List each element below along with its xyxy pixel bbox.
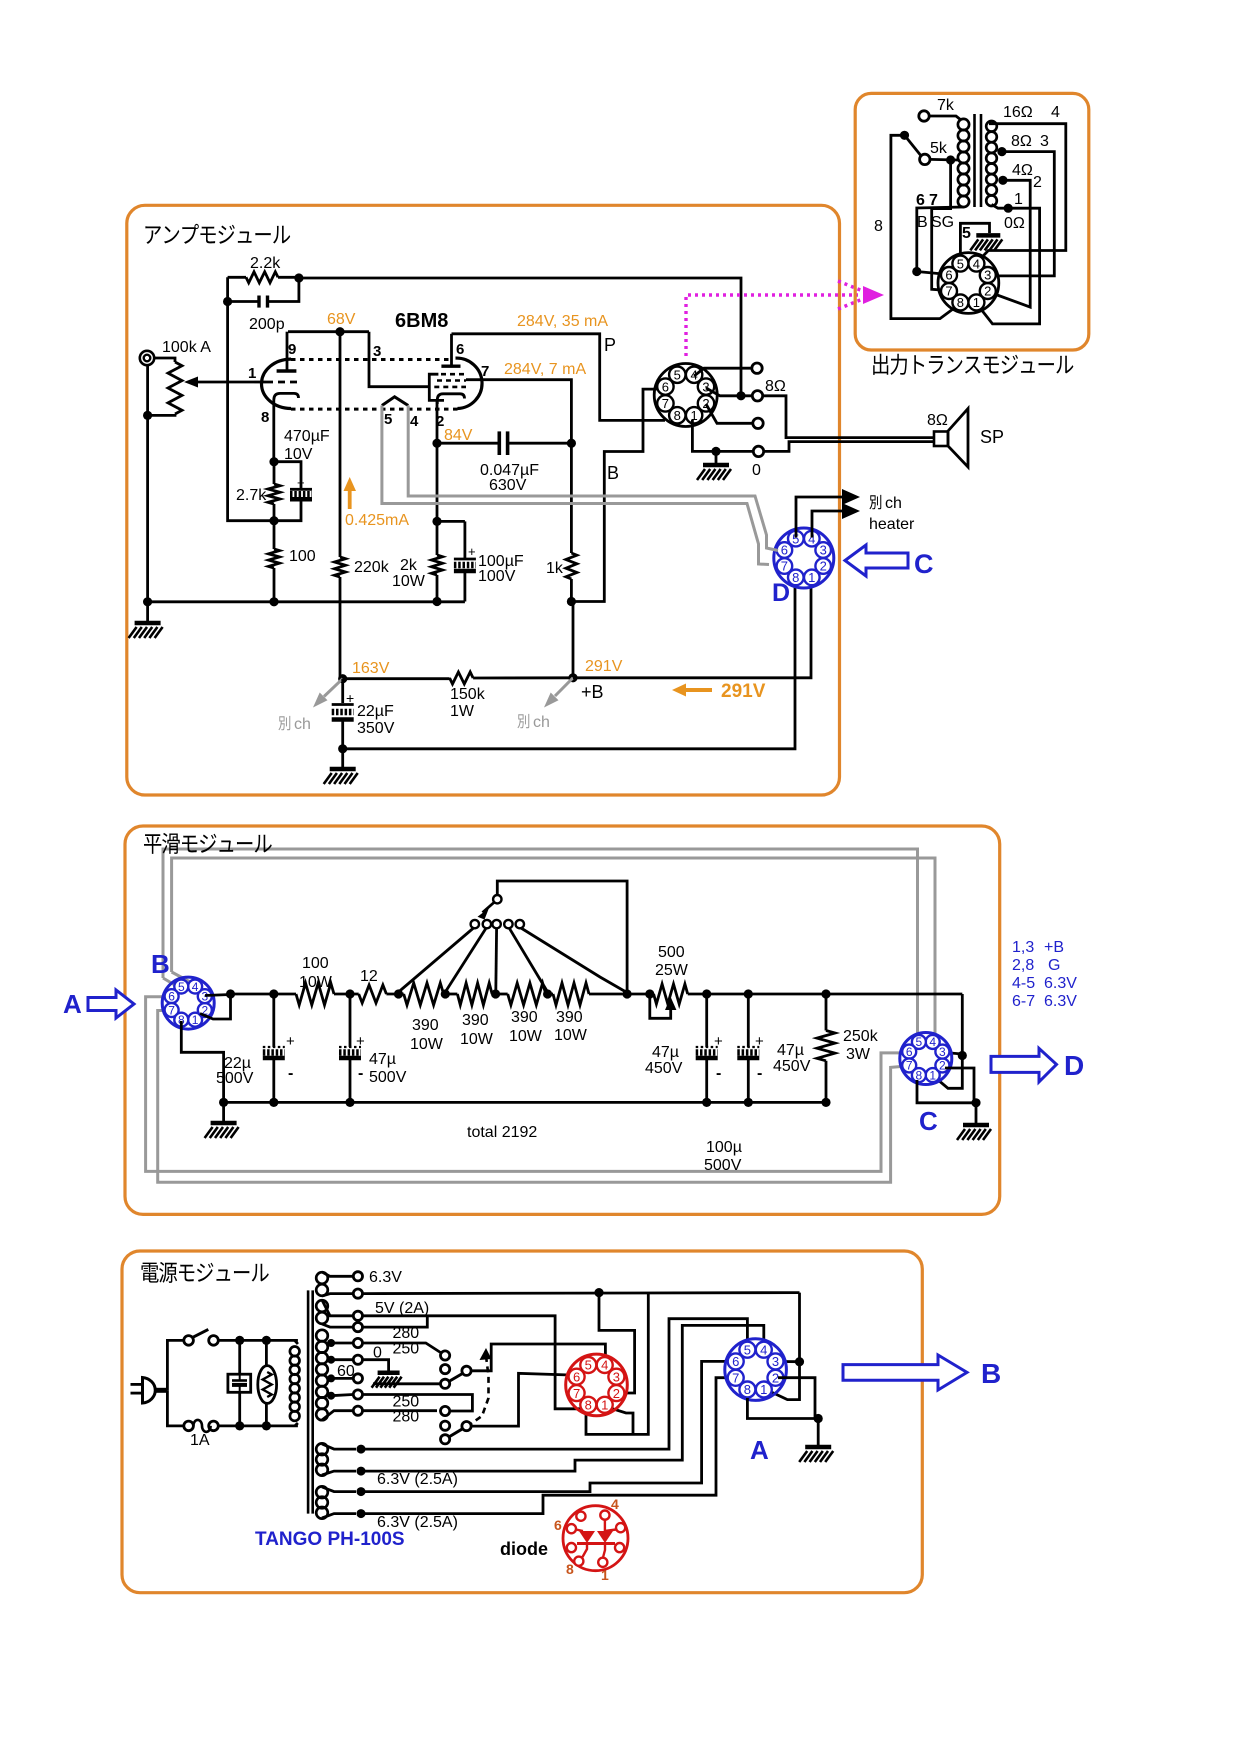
resistor R 2k 10W <box>436 521 439 555</box>
wire B pin8 ground <box>181 1021 223 1102</box>
wire 5V run <box>363 1316 582 1409</box>
arrow grey betsu-ch right <box>555 678 573 696</box>
wire 280b stub <box>363 1409 438 1412</box>
wire main line left <box>231 993 297 996</box>
svg-text:450V: 450V <box>773 1058 811 1075</box>
node B gnd <box>219 1098 228 1107</box>
socket B <box>162 977 214 1029</box>
gray top pair outer <box>163 849 918 1040</box>
resistor R 390 no2 <box>457 983 492 1005</box>
svg-text:4: 4 <box>973 256 980 271</box>
svg-text:3: 3 <box>613 1369 620 1384</box>
ground A socket <box>817 1419 820 1447</box>
terminal ht3 <box>353 1374 362 1383</box>
node 22u gnd <box>269 1098 278 1107</box>
socket A <box>725 1339 787 1401</box>
winding heat2 <box>316 1486 328 1498</box>
svg-text:-: - <box>757 1065 762 1082</box>
magenta dotted pointer <box>686 295 858 356</box>
svg-text:2k: 2k <box>400 557 418 574</box>
diode socket pin <box>576 1512 585 1521</box>
arrow 291V feed <box>682 688 712 692</box>
svg-text:100V: 100V <box>478 568 516 585</box>
svg-text:3: 3 <box>373 343 381 360</box>
selector line 3 <box>494 928 498 992</box>
module box: power supply <box>122 1251 922 1593</box>
svg-text:7: 7 <box>906 1059 913 1073</box>
svg-text:7: 7 <box>732 1371 739 1386</box>
terminal ht5 <box>353 1406 362 1415</box>
svg-text:0: 0 <box>752 462 761 479</box>
svg-text:6: 6 <box>906 1045 913 1059</box>
wire pin8 cathode drop <box>272 412 275 462</box>
switch S2a contacts <box>441 1351 450 1360</box>
node 250k top <box>821 989 830 998</box>
svg-text:5: 5 <box>962 225 971 242</box>
node 68V <box>335 327 344 336</box>
svg-text:1k: 1k <box>546 560 564 577</box>
wire B pin3 out <box>205 995 231 996</box>
svg-text:+: + <box>297 475 305 490</box>
node 4ohm tap <box>998 176 1007 185</box>
svg-text:C: C <box>914 549 934 579</box>
svg-text:4: 4 <box>192 980 199 994</box>
node tap4 <box>543 989 552 998</box>
wire pin4 to term1 <box>694 368 751 376</box>
resistor R 100 <box>273 521 276 549</box>
svg-text:100k A: 100k A <box>162 339 211 356</box>
svg-text:10W: 10W <box>299 974 333 991</box>
wire to red pin2 <box>599 1293 635 1393</box>
node cath-top <box>269 457 278 466</box>
wire C pin1 tie <box>934 1056 962 1089</box>
node 47u450b gnd <box>744 1098 753 1107</box>
svg-text:6: 6 <box>168 990 175 1004</box>
resistor R 250k 3W <box>825 994 828 1031</box>
node B-top <box>567 439 576 448</box>
svg-text:ch: ch <box>885 495 902 512</box>
wire feedback left vertical <box>228 277 275 520</box>
wire 8ohm to speaker <box>763 396 934 438</box>
wire C pin2 gnd <box>945 1068 974 1103</box>
wire SG tap <box>932 160 951 291</box>
node n1 <box>235 1336 244 1345</box>
svg-text:3W: 3W <box>846 1046 871 1063</box>
svg-text:250k: 250k <box>843 1028 879 1045</box>
svg-text:8: 8 <box>957 295 964 310</box>
svg-text:100: 100 <box>302 955 329 972</box>
svg-text:6.3V: 6.3V <box>1044 993 1077 1010</box>
wire pin5 ground <box>960 223 989 262</box>
svg-text:7: 7 <box>573 1386 580 1401</box>
svg-text:5: 5 <box>744 1342 751 1357</box>
svg-text:8: 8 <box>744 1382 751 1397</box>
input jack J1 <box>140 351 154 365</box>
svg-text:1: 1 <box>601 1567 609 1583</box>
node main c47 <box>345 989 354 998</box>
svg-text:4: 4 <box>1051 104 1060 121</box>
gray top pair inner <box>172 858 935 1040</box>
svg-text:5: 5 <box>585 1358 592 1373</box>
ground xfmr 0 <box>378 1370 400 1375</box>
svg-text:500: 500 <box>658 944 685 961</box>
svg-text:TANGO PH-100S: TANGO PH-100S <box>255 1529 405 1550</box>
node 6.3b <box>594 1288 603 1297</box>
wire to 100uF top <box>437 520 465 523</box>
capacitor C2 0.047uF 630V <box>437 442 499 445</box>
wire A pin1 tie <box>768 1362 800 1400</box>
ground OPT <box>976 233 1000 238</box>
wire to 470uF <box>274 462 301 490</box>
node tap2 <box>441 989 450 998</box>
svg-text:2: 2 <box>984 284 991 299</box>
transformer T2 secondary <box>986 121 997 132</box>
surge lamp <box>265 1340 268 1366</box>
svg-text:P: P <box>604 335 616 355</box>
svg-text:A: A <box>750 1435 769 1465</box>
wire heat run1 <box>361 1319 747 1449</box>
svg-text:5: 5 <box>384 411 392 428</box>
resistor R 390 no1 <box>404 983 444 1005</box>
wire to red pin8 bottom <box>586 1293 648 1435</box>
label betsu-ch right <box>517 714 529 728</box>
node fb-right <box>294 273 303 282</box>
tube V1 triode cathode <box>274 393 299 412</box>
socket X2 OPT <box>938 253 999 314</box>
capacitor C4 plates <box>332 703 354 706</box>
wire plug bottom <box>167 1390 184 1426</box>
terminal t3 <box>753 418 763 428</box>
svg-text:1: 1 <box>929 1068 936 1082</box>
terminal ht4 <box>353 1390 362 1399</box>
node n3 <box>235 1421 244 1430</box>
arrow D pointer <box>991 1048 1057 1082</box>
AC plug <box>143 1378 156 1404</box>
svg-text:500V: 500V <box>216 1070 254 1087</box>
wire D pin5 up <box>796 497 848 538</box>
node A3 <box>795 1357 804 1366</box>
resistor R 12 <box>359 985 387 1003</box>
HT tap dot <box>327 1392 335 1400</box>
svg-text:6.3V: 6.3V <box>369 1269 402 1286</box>
node cap45 b <box>744 989 753 998</box>
svg-text:+: + <box>755 1033 764 1050</box>
svg-text:8Ω: 8Ω <box>927 412 948 429</box>
svg-text:1A: 1A <box>190 1432 210 1449</box>
selector common <box>900 131 909 140</box>
resistor R 100 10W <box>296 983 334 1005</box>
svg-text:+: + <box>468 544 476 559</box>
wire jack ground drop <box>146 365 149 602</box>
node 47u450a gnd <box>702 1098 711 1107</box>
resistor R 390 no3 <box>508 983 546 1005</box>
module box: smoothing <box>125 826 1000 1214</box>
arrow grey betsu-ch left <box>324 679 343 697</box>
svg-text:1: 1 <box>973 295 980 310</box>
node 2k-top <box>432 517 441 526</box>
svg-text:8Ω: 8Ω <box>1011 133 1032 150</box>
svg-text:10W: 10W <box>554 1027 588 1044</box>
title: smoothing module <box>144 834 161 854</box>
node 163V <box>338 674 347 683</box>
wire 220k top <box>339 332 342 557</box>
gray top to B pin5 <box>163 978 179 988</box>
node h2a <box>357 1487 366 1496</box>
svg-text:+: + <box>714 1033 723 1050</box>
HT tap dot <box>327 1374 335 1382</box>
svg-text:390: 390 <box>556 1009 583 1026</box>
wire 4ohm tap <box>989 180 1030 307</box>
svg-text:5: 5 <box>178 980 185 994</box>
svg-text:6: 6 <box>945 268 952 283</box>
terminal 5b <box>353 1323 362 1332</box>
tube envelope dotted bottom <box>291 408 458 411</box>
svg-text:8: 8 <box>792 570 799 585</box>
wire heat run4 <box>361 1378 733 1514</box>
svg-text:3: 3 <box>820 543 827 558</box>
wire grid2 drop <box>369 332 428 387</box>
svg-text:390: 390 <box>412 1017 439 1034</box>
svg-text:450V: 450V <box>645 1060 683 1077</box>
svg-text:10W: 10W <box>410 1036 444 1053</box>
wire prim bot <box>295 1423 298 1426</box>
wire 6.3b run <box>363 1293 800 1294</box>
node 1k-bottom <box>567 597 576 606</box>
wire screen to B node <box>466 380 571 444</box>
selector line 1 <box>399 928 474 992</box>
tube V1 triode plate <box>277 369 297 372</box>
node n4 <box>262 1421 271 1430</box>
terminal 6.3a <box>353 1272 362 1281</box>
arrow 0.425mA <box>348 489 352 509</box>
diode socket pin <box>567 1543 576 1552</box>
svg-text:100µ: 100µ <box>706 1139 742 1156</box>
svg-text:6-7: 6-7 <box>1012 993 1035 1010</box>
wire main line right <box>707 993 963 996</box>
svg-text:3: 3 <box>939 1045 946 1059</box>
gray heater wire lower <box>382 406 769 565</box>
wire gnd bus smoothing <box>224 1101 826 1104</box>
wire pot bottom <box>148 414 175 415</box>
svg-text:8: 8 <box>261 409 269 426</box>
wire pole2 out <box>471 1373 570 1426</box>
diode socket pin <box>600 1511 609 1520</box>
ganged dashed link <box>470 1356 489 1425</box>
svg-text:10W: 10W <box>460 1031 494 1048</box>
svg-text:6: 6 <box>573 1369 580 1384</box>
resistor R 150k 1W <box>450 672 474 684</box>
ground C socket <box>975 1103 978 1124</box>
arrow C pointer <box>845 545 908 576</box>
terminal ht2 <box>353 1355 362 1364</box>
svg-text:2.2k: 2.2k <box>250 255 281 272</box>
capacitor C-fb 200p <box>228 300 259 303</box>
diode socket pin <box>615 1543 624 1552</box>
resistor R-fb 2.2k <box>228 276 246 279</box>
svg-text:diode: diode <box>500 1539 548 1559</box>
selector line 4 <box>509 928 547 992</box>
node C gnd <box>971 1098 980 1107</box>
svg-text:2: 2 <box>613 1386 620 1401</box>
svg-text:1: 1 <box>808 570 815 585</box>
svg-text:2: 2 <box>1033 174 1042 191</box>
svg-text:4: 4 <box>601 1358 608 1373</box>
wire wiper to line <box>497 881 627 994</box>
HT tap dot <box>327 1339 335 1347</box>
svg-text:C: C <box>919 1106 938 1136</box>
tube V1 pentode screen dash rows <box>441 373 464 376</box>
selector wiper arrow <box>483 902 495 913</box>
capacitor C4 22uF 350V <box>341 679 344 703</box>
svg-text:6BM8: 6BM8 <box>395 310 448 332</box>
title: output transformer module <box>873 354 888 375</box>
svg-text:6: 6 <box>662 379 669 394</box>
module box: amp module <box>127 205 840 795</box>
diode socket pin <box>616 1523 625 1532</box>
terminal t1 <box>752 363 762 373</box>
svg-text:163V: 163V <box>352 660 390 677</box>
label betsu-ch heater <box>869 495 881 509</box>
node 8ohm tap <box>997 147 1006 156</box>
wire 1k to +B <box>572 602 575 678</box>
potentiometer VR1 100kA <box>168 362 182 414</box>
svg-text:2.7k: 2.7k <box>236 487 267 504</box>
svg-text:6: 6 <box>554 1517 562 1533</box>
wire 0 to speaker <box>764 442 934 452</box>
svg-text:5k: 5k <box>930 140 948 157</box>
svg-text:291V: 291V <box>721 681 766 702</box>
wire C pin8 gnd <box>917 1080 976 1103</box>
winding heat1 <box>316 1443 328 1455</box>
svg-text:6: 6 <box>456 341 464 358</box>
svg-text:4: 4 <box>410 413 419 430</box>
wire heat run3 <box>361 1361 733 1491</box>
tube V1 pentode cathode <box>437 394 464 404</box>
resistor R 1k <box>570 443 573 553</box>
svg-text:10W: 10W <box>509 1028 543 1045</box>
svg-text:D: D <box>1064 1050 1084 1081</box>
svg-text:7: 7 <box>929 192 938 209</box>
wire 250b to sw2 <box>363 1395 473 1412</box>
diode socket pin <box>574 1557 583 1566</box>
node 47u gnd <box>345 1098 354 1107</box>
svg-text:1: 1 <box>192 1013 199 1027</box>
label betsu-ch left <box>278 716 290 730</box>
node 8ohm <box>736 391 745 400</box>
wire pin3 to 8ohm <box>706 388 752 396</box>
gray bottom pair outer <box>146 997 907 1172</box>
terminal 5a <box>353 1311 362 1320</box>
terminal 6.3b <box>353 1289 362 1298</box>
terminal ht1 <box>353 1338 362 1347</box>
node A gnd <box>814 1414 823 1423</box>
svg-text:500V: 500V <box>369 1069 407 1086</box>
node C plus <box>958 1051 967 1060</box>
wire +B to D pin1 <box>573 578 811 678</box>
ground amp input <box>146 602 149 622</box>
svg-text:8: 8 <box>674 408 681 423</box>
svg-text:8: 8 <box>874 218 883 235</box>
tube envelope dotted top <box>291 358 449 361</box>
diode socket pin <box>567 1524 576 1533</box>
node h1b <box>357 1467 366 1476</box>
node 84V <box>432 439 441 448</box>
svg-text:8: 8 <box>566 1561 574 1577</box>
transformer T2 core <box>973 114 976 207</box>
svg-text:B: B <box>981 1358 1001 1389</box>
tube V1 pentode plate <box>441 365 460 368</box>
svg-text:150k: 150k <box>450 686 486 703</box>
node cath-bot <box>269 516 278 525</box>
diode D2 <box>597 1531 613 1543</box>
wire 8ohm tap <box>996 152 1054 276</box>
tube V1 pentode envelope <box>456 358 483 408</box>
svg-text:8Ω: 8Ω <box>765 378 786 395</box>
svg-text:B: B <box>917 214 928 231</box>
capacitor 47u 500V <box>349 994 352 1047</box>
capacitor C3 100uF 100V <box>454 558 476 561</box>
module box: output transformer <box>855 93 1089 350</box>
svg-text:60: 60 <box>337 1363 355 1380</box>
ground 22uF <box>341 749 344 768</box>
title: power module <box>141 1263 158 1283</box>
wire pin2 to term3 <box>706 404 753 423</box>
svg-text:6: 6 <box>916 192 925 209</box>
wire 16ohm <box>977 124 1066 263</box>
capacitor 47u 450V a <box>705 994 708 1047</box>
node main c22 <box>269 989 278 998</box>
svg-text:ch: ch <box>533 714 550 731</box>
node n2 <box>262 1336 271 1345</box>
svg-text:total 2192: total 2192 <box>467 1124 537 1141</box>
svg-text:291V: 291V <box>585 658 623 675</box>
svg-text:220k: 220k <box>354 559 390 576</box>
HT tap dot <box>327 1356 335 1364</box>
wire pole1 out <box>471 1344 605 1371</box>
svg-text:3: 3 <box>702 379 709 394</box>
svg-text:D: D <box>772 579 790 607</box>
node 250k gnd <box>821 1098 830 1107</box>
svg-text:284V, 7 mA: 284V, 7 mA <box>504 361 586 378</box>
wire red pin1 stub <box>607 1407 633 1434</box>
terminal 5k <box>920 154 930 164</box>
svg-text:500V: 500V <box>704 1157 742 1174</box>
svg-text:+: + <box>356 1033 365 1050</box>
tube V1 triode envelope <box>262 359 292 408</box>
svg-text:10W: 10W <box>392 573 426 590</box>
capacitor 47u 450V b <box>747 994 750 1047</box>
wire main to C <box>961 994 964 1056</box>
diode D1 <box>579 1531 595 1543</box>
wire gnd bus <box>148 600 465 603</box>
pot wiper arrow to grid <box>190 381 254 384</box>
svg-text:7: 7 <box>168 1003 175 1017</box>
svg-text:6: 6 <box>732 1354 739 1369</box>
gray bottom pair inner <box>158 1011 907 1183</box>
svg-text:7: 7 <box>662 396 669 411</box>
svg-text:9: 9 <box>288 341 296 358</box>
svg-text:4: 4 <box>929 1035 936 1049</box>
svg-text:+: + <box>346 690 354 706</box>
socket diode circle <box>563 1506 628 1571</box>
wire C pin3 <box>944 1053 962 1055</box>
terminal t2 8ohm <box>752 391 762 401</box>
svg-text:4Ω: 4Ω <box>1012 162 1033 179</box>
winding HT <box>316 1330 328 1342</box>
selector line 5 <box>521 928 626 992</box>
svg-text:7k: 7k <box>937 97 955 114</box>
node r100-gnd <box>269 597 278 606</box>
